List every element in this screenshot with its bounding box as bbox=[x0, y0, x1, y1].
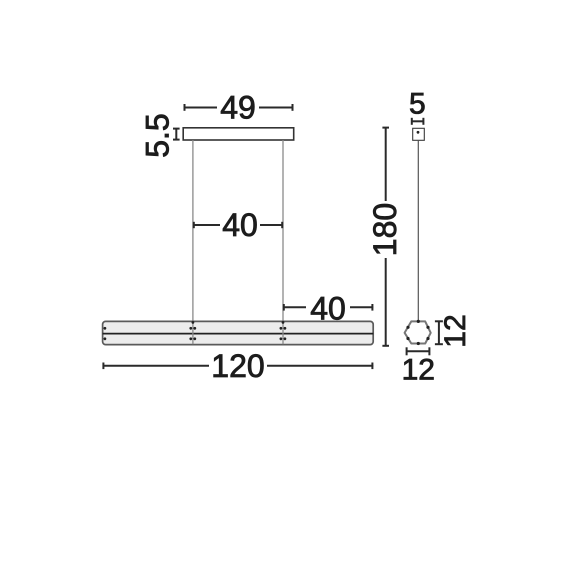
svg-text:40: 40 bbox=[310, 291, 346, 327]
svg-text:40: 40 bbox=[222, 207, 258, 243]
svg-text:5.5: 5.5 bbox=[140, 113, 176, 157]
svg-text:12: 12 bbox=[402, 353, 435, 386]
svg-text:120: 120 bbox=[211, 348, 264, 384]
svg-text:180: 180 bbox=[367, 203, 403, 256]
svg-text:49: 49 bbox=[220, 90, 256, 126]
svg-text:12: 12 bbox=[439, 314, 472, 347]
svg-text:5: 5 bbox=[409, 88, 426, 121]
